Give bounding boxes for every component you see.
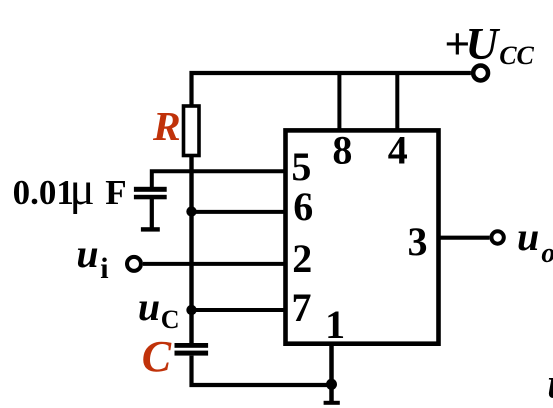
svg-text:u: u	[138, 284, 160, 329]
svg-text:R: R	[152, 103, 181, 149]
terminal ui (open circle)	[127, 257, 141, 271]
node: junction dot at pin 6	[186, 206, 196, 216]
label 0.01uF	[13, 163, 127, 215]
svg-text:u: u	[547, 362, 553, 408]
wire: pin 5 horizontal with bend down to 0.01uF capacitor	[152, 171, 286, 187]
svg-text:4: 4	[388, 128, 408, 173]
wire: pin 7 horizontal	[192, 308, 286, 312]
wire: vertical from resistor bottom down to capacitor C	[189, 156, 193, 345]
ground symbol bar	[324, 401, 340, 405]
IC 555 timer U1 body	[286, 130, 439, 343]
svg-text:2: 2	[292, 236, 312, 281]
svg-text:1: 1	[325, 302, 345, 347]
capacitor C bottom plate	[175, 351, 209, 356]
svg-text:F: F	[105, 173, 126, 212]
wire: from capacitor C bottom to ground rail	[192, 356, 332, 385]
svg-text:u: u	[76, 231, 98, 276]
wire: capacitor 0.01uF lower lead	[150, 199, 154, 228]
terminal uo (open circle)	[491, 231, 503, 243]
svg-text:C: C	[142, 332, 172, 381]
wire: pin 8 vertical to +Ucc rail	[337, 73, 341, 130]
label uo output	[517, 214, 553, 269]
capacitor C top plate	[175, 343, 209, 348]
svg-text:CC: CC	[499, 41, 534, 70]
wire: pin 4 vertical to +Ucc rail	[395, 73, 399, 130]
svg-text:3: 3	[408, 219, 428, 264]
wire: +Ucc top rail	[192, 73, 471, 106]
node: junction dot at pin 7	[186, 305, 196, 315]
wire: pin 3 output horizontal	[439, 236, 490, 240]
capacitor 0.01uF top plate	[134, 187, 167, 192]
svg-text:C: C	[161, 305, 180, 334]
svg-text:i: i	[100, 252, 108, 285]
wire: pin 1 vertical to ground	[329, 344, 334, 401]
label ui input	[76, 231, 108, 285]
svg-text:5: 5	[291, 144, 311, 189]
resistor R1 body	[184, 106, 200, 156]
label +Ucc	[444, 18, 534, 70]
label uC node	[138, 284, 180, 334]
node: junction dot at ground rail	[326, 379, 337, 390]
svg-text:8: 8	[332, 128, 352, 173]
svg-text:μ: μ	[70, 163, 95, 215]
capacitor 0.01uF bottom plate	[134, 195, 167, 200]
terminal +Ucc (open circle)	[473, 66, 488, 81]
svg-text:U: U	[465, 18, 500, 69]
wire: pin 2 horizontal from ui terminal	[143, 262, 286, 266]
svg-text:7: 7	[292, 285, 312, 330]
svg-text:u: u	[517, 214, 539, 259]
wire: pin 6 horizontal	[192, 210, 286, 214]
svg-text:6: 6	[293, 184, 313, 229]
ground bar of 0.01uF capacitor	[141, 227, 160, 231]
svg-text:0.01: 0.01	[13, 173, 74, 212]
svg-text:o: o	[541, 238, 553, 269]
